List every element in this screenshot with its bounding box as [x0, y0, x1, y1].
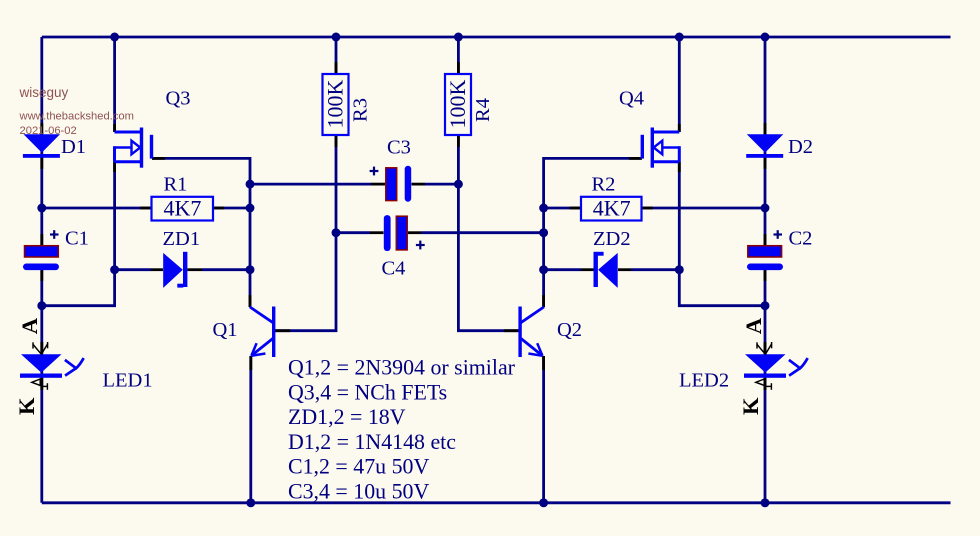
svg-text:Q3: Q3 [166, 87, 191, 109]
svg-text:wiseguy: wiseguy [19, 85, 69, 100]
svg-text:4K7: 4K7 [163, 196, 201, 221]
svg-text:LED2: LED2 [679, 370, 729, 392]
svg-text:Q4: Q4 [619, 87, 644, 109]
svg-text:R2: R2 [592, 174, 616, 196]
svg-text:Q3,4 = NCh FETs: Q3,4 = NCh FETs [288, 379, 447, 404]
svg-text:C1,2 = 47u 50V: C1,2 = 47u 50V [288, 454, 429, 479]
svg-text:A: A [17, 317, 42, 334]
svg-text:4K7: 4K7 [593, 196, 631, 221]
svg-text:ZD1: ZD1 [163, 228, 201, 250]
svg-text:A: A [741, 317, 766, 334]
svg-text:100K: 100K [322, 79, 347, 128]
svg-text:C3: C3 [387, 136, 411, 158]
svg-text:D2: D2 [788, 136, 813, 158]
svg-text:100K: 100K [445, 79, 470, 128]
svg-text:R1: R1 [164, 174, 188, 196]
svg-text:LED1: LED1 [103, 370, 153, 392]
svg-text:K: K [738, 397, 763, 415]
svg-text:Q2: Q2 [557, 319, 582, 341]
svg-text:Q1: Q1 [213, 319, 238, 341]
svg-text:R4: R4 [472, 98, 494, 122]
svg-text:K: K [14, 397, 39, 415]
svg-text:ZD2: ZD2 [593, 228, 631, 250]
svg-text:R3: R3 [349, 98, 371, 122]
svg-text:C1: C1 [65, 228, 89, 250]
svg-text:D1,2 = 1N4148 etc: D1,2 = 1N4148 etc [288, 429, 456, 454]
svg-text:Q1,2 = 2N3904 or similar: Q1,2 = 2N3904 or similar [288, 355, 516, 380]
svg-text:C4: C4 [382, 257, 406, 279]
svg-text:C2: C2 [789, 228, 813, 250]
svg-text:ZD1,2 = 18V: ZD1,2 = 18V [288, 404, 406, 429]
svg-text:www.thebackshed.com: www.thebackshed.com [19, 111, 134, 123]
svg-text:D1: D1 [61, 136, 86, 158]
svg-text:C3,4 = 10u 50V: C3,4 = 10u 50V [288, 479, 429, 504]
